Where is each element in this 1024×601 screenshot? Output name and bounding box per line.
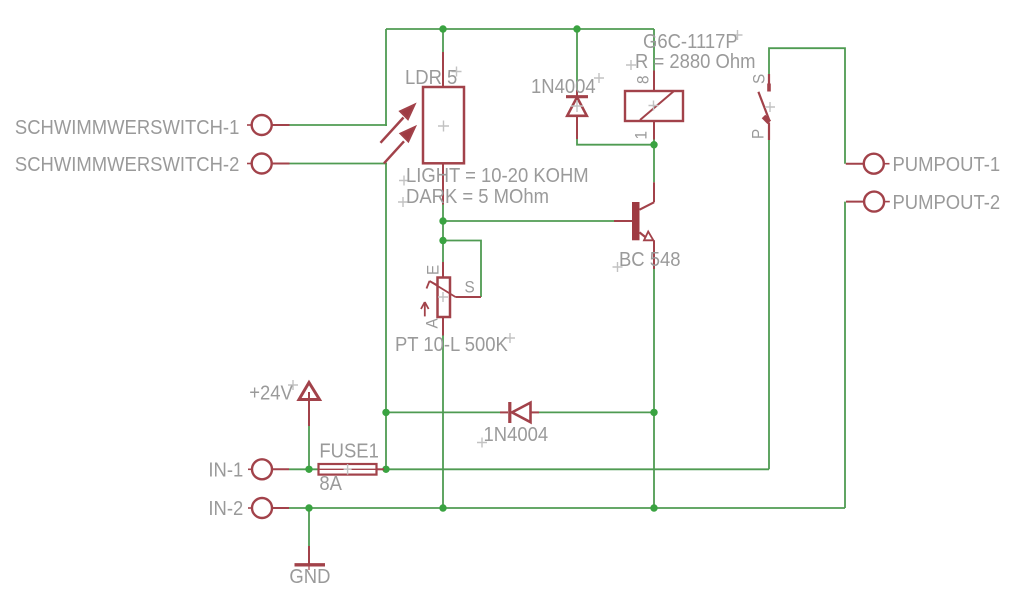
wire emitter down bbox=[653, 269, 655, 412]
junction top LDR bbox=[439, 25, 446, 32]
svg-text:P: P bbox=[749, 129, 768, 139]
wire +24V drop bbox=[308, 426, 310, 469]
relay coil K1 G6C-1117P bbox=[625, 71, 683, 140]
wire IN-1 left bbox=[289, 468, 319, 470]
transistor Q1 BC548 bbox=[614, 182, 654, 269]
wire GND drop bbox=[308, 508, 310, 546]
cross relay center bbox=[649, 101, 659, 111]
wire left vertical lower bbox=[385, 164, 387, 470]
terminal PUMPOUT-2 bbox=[846, 192, 890, 212]
svg-text:SCHWIMMWERSWITCH-1: SCHWIMMWERSWITCH-1 bbox=[15, 116, 239, 139]
wire LDR top bbox=[442, 29, 444, 52]
svg-text:DARK = 5 MOhm: DARK = 5 MOhm bbox=[406, 185, 549, 208]
wire SCHWIMMWERSWITCH-2 horizontal bbox=[289, 163, 387, 165]
svg-text:IN-1: IN-1 bbox=[208, 459, 243, 482]
LDR light arrow upper bbox=[381, 105, 415, 143]
svg-text:+24V: +24V bbox=[249, 381, 293, 404]
cross BC548 label bbox=[613, 262, 623, 272]
junction IN-2 pot bbox=[439, 504, 446, 511]
svg-text:1N4004: 1N4004 bbox=[531, 75, 596, 98]
cross diode vertical center bbox=[571, 100, 583, 112]
svg-text:GND: GND bbox=[289, 565, 330, 588]
svg-text:SCHWIMMWERSWITCH-2: SCHWIMMWERSWITCH-2 bbox=[15, 153, 239, 176]
pot adjust arrow bbox=[424, 302, 426, 316]
terminal IN-1 bbox=[248, 459, 289, 479]
svg-text:S: S bbox=[750, 74, 769, 84]
cross +24V label bbox=[288, 380, 298, 390]
junction rail left bbox=[382, 409, 389, 416]
wire pot top bbox=[442, 241, 444, 263]
junction IN-2 emitter bbox=[650, 504, 657, 511]
cross pot center bbox=[438, 292, 448, 302]
junction top diode bbox=[573, 25, 580, 32]
svg-text:S: S bbox=[465, 278, 475, 297]
svg-text:LIGHT = 10-20 KOHM: LIGHT = 10-20 KOHM bbox=[406, 164, 589, 187]
junction relay pin1 node bbox=[650, 141, 657, 148]
cross DARK label bbox=[398, 197, 408, 207]
cross LDR5 label bbox=[452, 67, 462, 77]
cross LDR center bbox=[438, 121, 449, 132]
terminal IN-2 bbox=[248, 498, 289, 518]
wire base net horizontal bbox=[443, 220, 614, 222]
wire node to collector bbox=[653, 145, 655, 183]
wire IN-1 row right of fuse bbox=[384, 468, 769, 470]
junction IN-2 GND bbox=[305, 504, 312, 511]
pot wiper arm bbox=[430, 281, 456, 297]
cross PT label bbox=[505, 333, 515, 343]
wire SCHWIMMWERSWITCH-1 horizontal bbox=[289, 124, 387, 126]
svg-text:PT 10-L 500K: PT 10-L 500K bbox=[395, 333, 508, 356]
cross 1N4004 bottom label bbox=[477, 438, 487, 448]
wire bottom rail left bbox=[386, 411, 500, 413]
wire bottom rail right bbox=[539, 411, 654, 413]
cross G6C label bbox=[733, 30, 743, 40]
wire top rail bbox=[386, 28, 654, 30]
wire pot wiper loop bbox=[443, 241, 481, 298]
wire switch top bbox=[769, 48, 845, 164]
wire relay pin8 bbox=[653, 29, 655, 71]
svg-text:1: 1 bbox=[632, 131, 651, 140]
terminal PUMPOUT-1 bbox=[846, 154, 890, 174]
cross fuse center bbox=[344, 464, 352, 475]
junction IN-1 +24V bbox=[305, 466, 312, 473]
terminal SCHWIMMWERSWITCH-1 bbox=[247, 115, 290, 135]
terminal SCHWIMMWERSWITCH-2 bbox=[247, 154, 290, 174]
svg-text:PUMPOUT-2: PUMPOUT-2 bbox=[893, 191, 1001, 214]
diode D2 1N4004 horizontal bbox=[500, 402, 539, 423]
svg-text:LDR 5: LDR 5 bbox=[405, 66, 457, 89]
junction base net bbox=[439, 217, 446, 224]
svg-text:8A: 8A bbox=[319, 472, 342, 495]
wire left vertical upper bbox=[385, 29, 387, 126]
fuse FUSE1 bbox=[319, 464, 385, 475]
wire PUMPOUT-2 vertical bbox=[844, 202, 846, 508]
junction rail right bbox=[650, 409, 657, 416]
svg-text:8: 8 bbox=[634, 75, 653, 84]
wire diode branch top bbox=[576, 29, 578, 90]
junction IN-1 fuse right bbox=[382, 466, 389, 473]
wire switch bottom vertical bbox=[768, 140, 770, 469]
potentiometer PT 10-L 500K bbox=[421, 262, 481, 336]
wire LDR bottom to base net bbox=[442, 205, 444, 241]
svg-text:IN-2: IN-2 bbox=[208, 497, 243, 520]
svg-text:E: E bbox=[424, 265, 443, 275]
cross LIGHT label bbox=[399, 176, 409, 186]
wire relay pin1 to node bbox=[653, 140, 655, 145]
wire emitter node to IN-2 row bbox=[653, 412, 655, 508]
svg-text:R = 2880 Ohm: R = 2880 Ohm bbox=[635, 50, 755, 73]
svg-text:PUMPOUT-1: PUMPOUT-1 bbox=[893, 153, 1001, 176]
switch contact P/S bbox=[758, 74, 769, 140]
cross 1N4004 top label bbox=[594, 73, 604, 83]
wire IN-2 row bbox=[289, 507, 845, 509]
junction pot top bbox=[439, 237, 446, 244]
cross R= label bbox=[626, 60, 636, 70]
svg-text:FUSE1: FUSE1 bbox=[319, 440, 378, 463]
wire pot bottom vertical bbox=[442, 336, 444, 509]
wire diode branch bottom bbox=[577, 139, 654, 145]
origin crosses bbox=[288, 30, 775, 475]
LDR light arrow lower bbox=[384, 127, 415, 163]
resistor LDR5 bbox=[423, 52, 464, 205]
supply +24V arrow bbox=[299, 383, 320, 427]
svg-text:A: A bbox=[423, 318, 442, 328]
diode D vertical 1N4004 bbox=[566, 90, 588, 139]
svg-text:1N4004: 1N4004 bbox=[484, 423, 549, 446]
ground GND bbox=[295, 546, 326, 570]
cross switch center bbox=[765, 102, 775, 112]
svg-text:BC 548: BC 548 bbox=[619, 248, 681, 271]
